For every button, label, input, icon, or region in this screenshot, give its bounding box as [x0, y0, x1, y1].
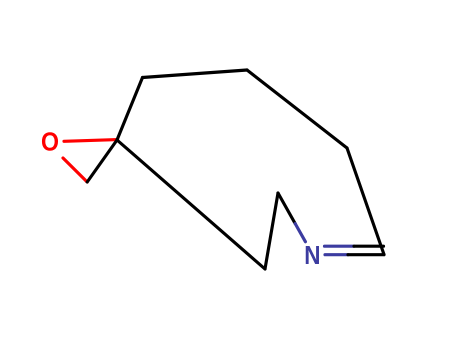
ring bond AP-J2: [247, 70, 347, 148]
epoxide C1-C2 bond: [87, 140, 117, 182]
double bond N=CH main blue half: [325, 253, 348, 256]
svg-text:O: O: [41, 128, 59, 157]
epoxide O-C2 bond: [63, 158, 87, 182]
double bond inner black half: [354, 245, 384, 248]
ring bond C1-T1: [117, 78, 143, 141]
double bond inner blue half: [325, 245, 355, 248]
bond N-J1 blue half: [295, 224, 305, 242]
epoxide O-C1 bond: [64, 140, 118, 142]
ring bond J1-C8: [265, 193, 278, 269]
svg-text:N: N: [304, 241, 320, 270]
ring bond J2-CH: [347, 148, 384, 255]
ring bond C8-C1 long diagonal: [117, 140, 265, 269]
double bond N=CH main black half: [348, 253, 384, 256]
bond N-J1 black half: [278, 193, 295, 224]
ring bond T1-AP: [143, 70, 248, 78]
